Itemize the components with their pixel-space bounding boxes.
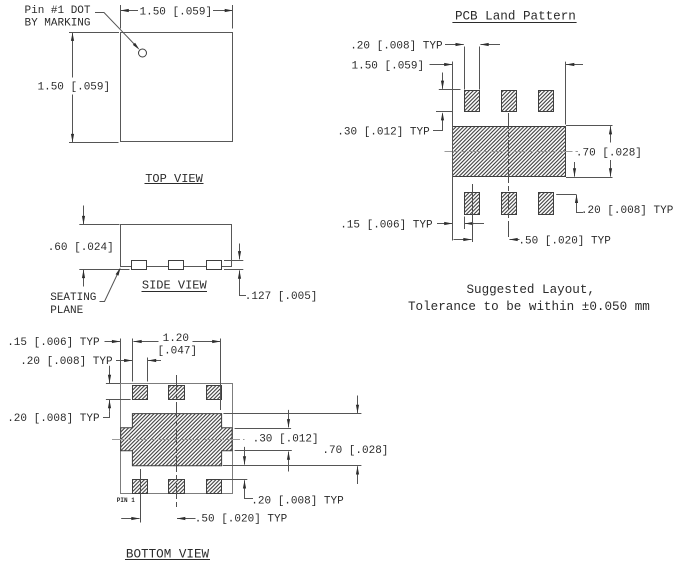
svg-text:.127 [.005]: .127 [.005] — [245, 291, 318, 303]
dim arrow down .70 land — [610, 160, 612, 177]
pair arrow .20 second — [148, 360, 161, 362]
bottom view top pad 1 — [133, 386, 148, 400]
dim arrow down .30 land — [442, 73, 444, 89]
extension top pad3 right up — [220, 339, 222, 411]
extension wing top right — [235, 428, 292, 430]
extension central pad bottom right — [566, 177, 613, 179]
extension line body top left — [79, 224, 119, 226]
land top pad 2 — [502, 91, 517, 112]
svg-text:.15 [.006] TYP: .15 [.006] TYP — [340, 220, 433, 232]
pair arrow 1.50 land — [566, 64, 583, 66]
extension outline top left — [106, 383, 120, 385]
svg-text:Tolerance to be within ±0.050: Tolerance to be within ±0.050 mm — [408, 300, 650, 314]
svg-text:BY MARKING: BY MARKING — [25, 18, 91, 30]
leader line to pin 1 dot — [95, 13, 135, 46]
dim arrow down .70 bottom view — [357, 396, 359, 414]
svg-text:SEATING: SEATING — [50, 292, 96, 304]
dim arrow down .30 bottom view — [288, 410, 290, 428]
extension top pad1 right — [479, 47, 481, 90]
dim arrow up .70 land — [610, 126, 612, 142]
leader arrow .15 land — [437, 223, 453, 225]
dim arrow down gap .20 land — [574, 162, 576, 177]
extension line right (top dim) — [232, 5, 234, 29]
dim arrow up .70 bottom view — [357, 466, 359, 484]
vertical centerline bottom view — [176, 375, 178, 509]
svg-text:[.047]: [.047] — [157, 345, 197, 357]
extension top pad1 left up — [132, 339, 134, 382]
svg-text:SIDE VIEW: SIDE VIEW — [142, 279, 208, 293]
extension top pad1 right short — [147, 358, 149, 382]
bottom view bottom pad 2 — [169, 480, 185, 494]
pair arrow .20 top — [480, 44, 500, 46]
svg-text:.70 [.028]: .70 [.028] — [322, 445, 388, 457]
dim arrow left 1.50 top — [121, 10, 139, 12]
leader .20 bottom right — [245, 493, 254, 499]
underline TOP VIEW — [145, 183, 204, 185]
extension bottom pads top right — [220, 479, 247, 481]
side view pad 2 — [169, 261, 184, 270]
seating plane extension line — [79, 269, 129, 271]
extension bottom pad1 left short — [464, 217, 466, 230]
svg-text:.60 [.024]: .60 [.024] — [48, 242, 114, 254]
dim arrow up gap .20 bottom view — [244, 480, 246, 492]
land bottom pad 2 — [502, 193, 517, 215]
extension line bottom (left dim) — [69, 142, 119, 144]
svg-text:.15 [.006] TYP: .15 [.006] TYP — [7, 337, 100, 349]
leader arrow .15 bottom view — [105, 341, 121, 343]
dim arrow up .60 — [83, 270, 85, 287]
extension line top (left dim) — [69, 32, 119, 34]
leader arrow .20 top — [445, 44, 464, 46]
bottom pad1 centerline ext bottom view — [140, 469, 142, 523]
bottom view central pad — [121, 414, 232, 466]
top view package body outline — [121, 33, 233, 142]
svg-text:1.50 [.059]: 1.50 [.059] — [352, 61, 425, 73]
svg-text:Suggested Layout,: Suggested Layout, — [466, 283, 594, 297]
dim arrow up .127 — [239, 270, 241, 283]
dim arrow right 1.20 — [193, 341, 221, 343]
extension bottom pad3 top right — [556, 194, 576, 196]
svg-text:1.50 [.059]: 1.50 [.059] — [38, 82, 111, 94]
land bottom pad 1 — [465, 193, 480, 215]
extension line seating right — [224, 269, 243, 271]
dim arrow up gap .20 land — [576, 195, 578, 208]
extension wing bottom right — [235, 450, 292, 452]
bottom view outline — [121, 384, 233, 494]
extension central top long — [223, 413, 361, 415]
bottom view top pad 3 — [207, 386, 222, 400]
dim arrow left .50 bottom view — [177, 518, 196, 520]
dim arrow up 1.50 left — [72, 33, 74, 78]
side view pad 1 — [132, 261, 147, 270]
svg-text:.50 [.020] TYP: .50 [.020] TYP — [518, 235, 611, 247]
svg-text:.20 [.008] TYP: .20 [.008] TYP — [20, 356, 113, 368]
svg-text:PCB Land Pattern: PCB Land Pattern — [455, 10, 576, 24]
leader arrow .20 second — [116, 360, 132, 362]
vertical centerline land pattern — [508, 113, 510, 238]
leader .20 lower right — [577, 208, 584, 213]
dim arrow down .127 — [239, 244, 241, 260]
side view package body — [121, 225, 232, 267]
svg-text:.20 [.008] TYP: .20 [.008] TYP — [350, 41, 443, 53]
svg-text:.50 [.020] TYP: .50 [.020] TYP — [195, 514, 288, 526]
extension central bottom long — [223, 465, 362, 467]
dim arrow down 1.50 left — [72, 95, 74, 143]
svg-text:PLANE: PLANE — [50, 305, 83, 317]
bottom view top pad 2 — [169, 386, 185, 400]
land top pad 1 — [465, 91, 480, 112]
dim arrow right 1.50 top — [213, 10, 233, 12]
svg-text:PIN 1: PIN 1 — [117, 497, 135, 504]
leader arrow 1.50 land — [430, 64, 453, 66]
extension top pad1 left — [464, 47, 466, 90]
extension line central pad left edge — [452, 62, 454, 241]
leader .20 third — [103, 411, 110, 417]
extension line left (top dim) — [120, 5, 122, 29]
svg-text:.70 [.028]: .70 [.028] — [576, 147, 642, 159]
extension pad bottom left — [106, 399, 131, 401]
svg-text:.30 [.012]: .30 [.012] — [253, 433, 319, 445]
svg-text:.30 [.012] TYP: .30 [.012] TYP — [337, 126, 430, 138]
underline BOTTOM VIEW — [125, 559, 210, 561]
extension line pad top right — [224, 260, 243, 262]
dim arrow down gap .20 bottom view — [244, 447, 246, 465]
land bottom pad 3 — [539, 193, 554, 215]
svg-text:1.20: 1.20 — [163, 333, 189, 345]
land pattern central pad — [453, 127, 566, 177]
bottom view bottom pad 3 — [207, 480, 222, 494]
dim arrow right .50 land — [454, 239, 472, 241]
underline PCB Land Pattern — [452, 22, 576, 24]
bottom pad1 centerline ext — [472, 184, 474, 242]
dim arrow down .60 — [83, 206, 85, 225]
dim arrow right .50 bottom view — [121, 518, 139, 520]
leader seating plane — [100, 269, 120, 302]
bottom view bottom pad 1 — [133, 480, 148, 494]
dim arrow down .20 third — [109, 366, 111, 383]
dim arrow left .50 land — [509, 239, 519, 241]
land top pad 3 — [539, 91, 554, 112]
svg-text:.20 [.008] TYP: .20 [.008] TYP — [7, 413, 100, 425]
dim arrow up .30 bottom view — [288, 452, 290, 472]
extension pad1 top level — [439, 89, 461, 91]
svg-text:Pin #1 DOT: Pin #1 DOT — [25, 5, 91, 17]
extension pad1 bottom level — [436, 111, 453, 113]
pair arrow .15 land — [465, 223, 484, 225]
side view pad 3 — [207, 261, 222, 270]
svg-text:1.50 [.059]: 1.50 [.059] — [140, 6, 213, 18]
dim arrow left 1.20 — [133, 341, 158, 343]
extension outline left edge up — [120, 339, 122, 384]
svg-text:.20 [.008] TYP: .20 [.008] TYP — [581, 205, 674, 217]
extension central pad right edge — [565, 62, 567, 125]
dim arrow up .20 third — [109, 400, 111, 411]
extension central pad top right — [566, 125, 613, 127]
horizontal centerline bottom view — [112, 439, 245, 441]
leader to .127 text — [240, 283, 247, 296]
horizontal centerline land pattern — [445, 151, 579, 153]
svg-text:.20 [.008] TYP: .20 [.008] TYP — [251, 495, 344, 507]
leader .30 TYP — [433, 113, 443, 130]
underline SIDE VIEW — [142, 291, 208, 293]
pin 1 dot circle — [139, 49, 147, 57]
